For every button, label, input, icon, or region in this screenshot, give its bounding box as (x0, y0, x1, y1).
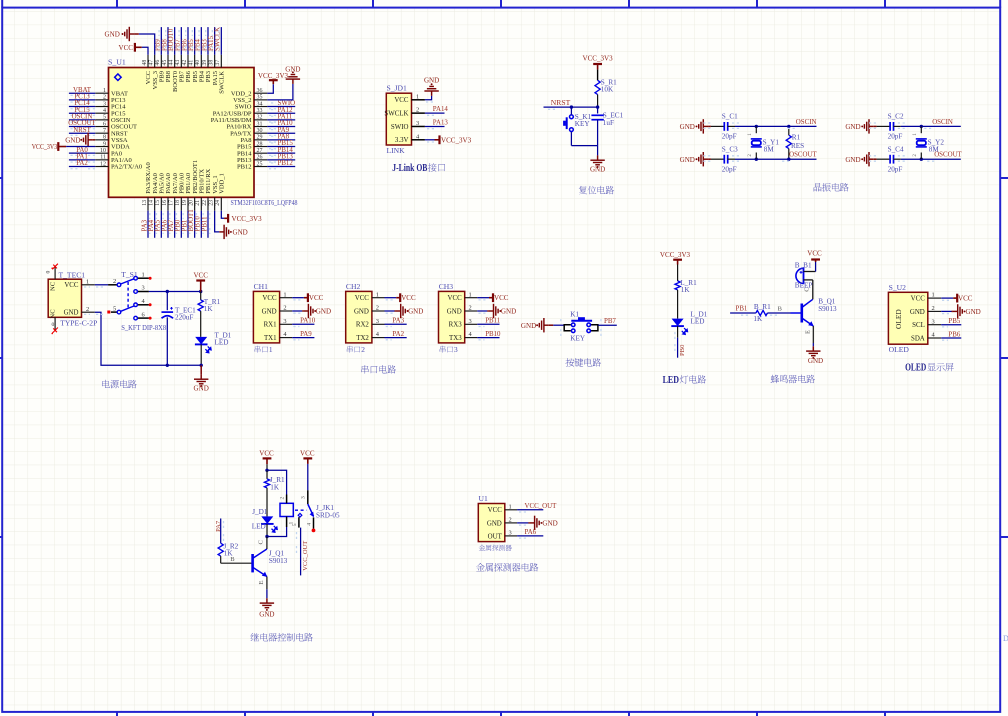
svg-text:1K: 1K (753, 315, 763, 323)
svg-text:26: 26 (257, 155, 263, 161)
svg-text:J-Link OB: J-Link OB (392, 163, 427, 174)
svg-text:3: 3 (469, 318, 472, 325)
svg-text:VCC: VCC (193, 272, 208, 280)
svg-text:5: 5 (113, 305, 116, 312)
wire and net label PA0 (U1 pin 10) (69, 147, 95, 156)
resistor S_R1 10K (595, 78, 617, 94)
wire and net label PA2 (U1 pin 12) (69, 160, 95, 169)
svg-text:U1: U1 (479, 494, 488, 503)
svg-text:GND: GND (259, 611, 274, 619)
power VCC (buzzer) (807, 249, 822, 271)
svg-text:S9013: S9013 (818, 305, 837, 313)
switch T_S1 S_KFT DIP-8X8 (107, 270, 166, 332)
power GND (power circuit) (194, 365, 209, 392)
IC S_U1 STM32F103C8T6_LQFP48 body (95, 55, 297, 211)
svg-text:22: 22 (202, 200, 208, 206)
svg-text:SWCLK: SWCLK (384, 111, 408, 118)
wire and net label PA9 (CH1 pin4) (292, 331, 314, 340)
svg-text:44: 44 (168, 60, 174, 66)
title LED circuit (663, 375, 707, 386)
svg-text:35: 35 (257, 95, 263, 101)
svg-text:GND: GND (424, 77, 439, 85)
svg-text:PB6: PB6 (948, 331, 960, 338)
svg-text:2: 2 (113, 278, 116, 285)
wire and net label PB8 (U1 top pin 45) (161, 27, 168, 55)
svg-text:33: 33 (257, 108, 263, 114)
power VCC_3V3 at JD1 pin4 (425, 135, 472, 144)
svg-text:B: B (230, 556, 235, 563)
svg-text:C: C (257, 540, 264, 545)
svg-text:4: 4 (103, 108, 106, 114)
svg-text:VCC_3V3: VCC_3V3 (660, 251, 691, 259)
svg-text:14: 14 (148, 200, 154, 206)
wire and net label PA6 (U1 OUT) (517, 529, 543, 538)
wire R1 to NRST node (596, 95, 599, 109)
svg-text:2: 2 (361, 345, 365, 354)
wire and net label PA1 (U1 pin 11) (69, 153, 95, 162)
svg-text:41: 41 (188, 60, 194, 66)
svg-text:3: 3 (103, 101, 106, 107)
capacitor S_EC1 1uF (reset) (591, 107, 623, 146)
wire and net label PC13 (U1 pin 2) (69, 93, 95, 102)
LED J_D1 (252, 508, 278, 532)
wire and net label PB1 (U1 bottom pin 19) (181, 211, 189, 238)
wire and net label PB0 (LED) (675, 326, 686, 358)
svg-text:KEY: KEY (570, 335, 586, 343)
wire and net label SWCLK (U1 top pin 37) (215, 27, 222, 55)
svg-text:3: 3 (142, 285, 145, 292)
svg-text:LED: LED (252, 523, 266, 531)
svg-text:4: 4 (306, 523, 312, 526)
wire and net label PB10 (U1 bottom pin 21) (195, 211, 203, 238)
title power circuit (102, 380, 137, 388)
buzzer B_B1 BEEP (795, 261, 816, 299)
power VCC_3V3 (reset) (583, 55, 614, 70)
svg-text:J_D1: J_D1 (252, 508, 268, 516)
svg-text:VCC_OUT: VCC_OUT (302, 541, 309, 571)
wire and net label OSCIN (U1 pin 5) (69, 113, 95, 122)
transistor J_Q1 S9013 (253, 537, 288, 590)
svg-text:28: 28 (257, 141, 263, 147)
svg-text:S_U2: S_U2 (889, 283, 907, 292)
svg-text:GND: GND (910, 309, 925, 316)
svg-text:GND: GND (194, 384, 209, 392)
label serial port 1 (255, 345, 273, 354)
power VCC (power circuit) (193, 272, 208, 292)
svg-text:VCC_3V3: VCC_3V3 (32, 143, 58, 151)
wire and net label PA3 (CH2 pin3) (385, 318, 407, 327)
svg-text:6: 6 (142, 311, 145, 318)
svg-text:31: 31 (257, 121, 263, 127)
wire and net label PB10 (CH3 pin4) (477, 331, 501, 340)
wire and net label PB6 (U1 top pin 42) (181, 27, 188, 55)
wire VCC to relay common pin3 (300, 464, 308, 504)
svg-text:VCC_OUT: VCC_OUT (525, 503, 558, 510)
title metal detector circuit (476, 563, 538, 572)
svg-text:VCC: VCC (958, 295, 973, 303)
svg-text:1: 1 (469, 291, 472, 298)
svg-text:PA2/TX/A0: PA2/TX/A0 (111, 164, 142, 171)
svg-text:20pF: 20pF (722, 133, 737, 141)
svg-text:3: 3 (509, 530, 512, 537)
power GND at U2 pin2 (941, 304, 981, 318)
svg-text:30: 30 (257, 128, 263, 134)
svg-text:RX1: RX1 (264, 322, 278, 329)
svg-text:19: 19 (182, 200, 188, 206)
svg-text:T_TEC1: T_TEC1 (59, 270, 86, 279)
svg-text:34: 34 (257, 101, 263, 107)
wire and net label PB11 (CH3 pin3) (477, 318, 501, 327)
wire and net label PA10 (CH1 pin3) (292, 318, 316, 327)
title serial port circuit (361, 365, 396, 373)
label serial port 3 (440, 345, 458, 354)
svg-text:2: 2 (509, 517, 512, 524)
svg-text:LED: LED (663, 375, 680, 386)
LED T_D1 (195, 331, 232, 365)
svg-text:46: 46 (155, 60, 161, 66)
svg-text:32: 32 (257, 115, 263, 121)
svg-text:5: 5 (103, 115, 106, 121)
wire and net label PB14 (U1 right pin 27) (267, 147, 295, 156)
power VCC (relay right) (300, 450, 315, 464)
power VCC at U1 pin48 (top) (119, 43, 149, 55)
wire and net label PB7 (key) (598, 318, 617, 337)
wire and net label PB6 (U2 SDA) (941, 331, 961, 340)
wire bottom node (reset) (571, 145, 597, 147)
relay J_JK1 SRD-05 coil (279, 495, 294, 528)
svg-text:PA3: PA3 (392, 318, 404, 325)
wire and net label PA11 (U1 right pin 32) (267, 113, 295, 122)
svg-text:VCC: VCC (448, 295, 463, 302)
svg-text:B_B1: B_B1 (795, 261, 812, 269)
svg-text:VCC_3V3: VCC_3V3 (232, 215, 263, 223)
svg-text:RX3: RX3 (449, 322, 463, 329)
svg-text:3: 3 (932, 318, 935, 325)
title crystal circuit (814, 183, 849, 192)
svg-text:20pF: 20pF (888, 133, 903, 141)
svg-text:3: 3 (416, 120, 419, 127)
svg-text:OLED: OLED (905, 363, 926, 374)
svg-text:8: 8 (103, 135, 106, 141)
svg-text:1: 1 (142, 271, 145, 278)
svg-text:S_JD1: S_JD1 (387, 84, 407, 93)
svg-text:45: 45 (162, 60, 168, 66)
svg-text:VCC: VCC (119, 44, 134, 52)
label metal detector (479, 545, 512, 551)
power VCC_3V3 at U1 pin24 VDD_1 (bottom) (221, 211, 262, 223)
svg-text:PA7: PA7 (215, 520, 222, 532)
svg-text:KEY: KEY (575, 120, 591, 128)
connector U1 metal detector body (478, 494, 517, 542)
svg-text:GND: GND (808, 357, 823, 365)
wire and net label PA9 (U1 right pin 30) (267, 127, 295, 136)
svg-text:1K: 1K (270, 484, 280, 492)
svg-text:PA10: PA10 (300, 318, 316, 325)
wire and net label PB12 (U1 right pin 25) (267, 160, 295, 169)
svg-text:0: 0 (46, 271, 52, 274)
resistor B_R1 1K (753, 303, 790, 323)
svg-text:GND: GND (680, 123, 695, 131)
wire and net label PA2 (CH2 pin4) (385, 331, 407, 340)
svg-text:TYPE-C-2P: TYPE-C-2P (60, 318, 97, 327)
title relay control circuit (251, 633, 313, 642)
svg-text:1: 1 (283, 291, 286, 298)
power GND at U1 pin2 (517, 516, 558, 530)
svg-text:NRST: NRST (73, 127, 91, 134)
wire and net label SWIO (U1 right pin 34) (267, 100, 295, 109)
wire LED to bottom node (relay) (265, 524, 268, 538)
svg-text:R1: R1 (792, 134, 801, 142)
resistor L_R1 1K (675, 265, 697, 319)
power GND (buzzer) (806, 343, 823, 365)
power GND (relay) (259, 589, 274, 618)
wire VCC_3V3 to R1 (597, 70, 599, 81)
power GND at U1 pin35 VSS_2 (267, 66, 300, 100)
svg-text:GND: GND (501, 308, 516, 316)
svg-text:GND: GND (447, 308, 462, 315)
wire and net label BOOT0 (U1 top pin 44) (168, 27, 175, 55)
svg-text:20pF: 20pF (722, 165, 737, 173)
no-ERC marker top NC pin (52, 264, 58, 270)
svg-text:E: E (805, 330, 812, 334)
svg-text:PA2: PA2 (392, 331, 404, 338)
svg-text:PA2: PA2 (76, 160, 88, 167)
title J-Link OB interface (392, 163, 445, 174)
wire and net label PB13 (U1 right pin 26) (267, 153, 295, 162)
svg-text:OUT: OUT (488, 533, 503, 540)
svg-text:47: 47 (148, 60, 154, 66)
svg-text:37: 37 (215, 60, 221, 66)
svg-text:GND: GND (354, 308, 369, 315)
svg-text:GND: GND (487, 520, 502, 527)
pushbutton K1 KEY (564, 310, 598, 342)
resistor J_R1 1K (264, 470, 285, 516)
wire and net label OSCOUT (U1 pin 6) (68, 120, 96, 129)
svg-text:CH2: CH2 (346, 282, 361, 291)
connector T_TEC1 TYPE-C-2P body (46, 266, 98, 331)
title buzzer circuit (771, 375, 815, 384)
svg-text:23: 23 (208, 200, 214, 206)
wire and net label PB5 (U1 top pin 41) (188, 27, 195, 55)
svg-text:VCC: VCC (300, 450, 315, 458)
svg-text:NC: NC (49, 281, 56, 291)
wire and net label PA8 (U1 right pin 29) (267, 133, 295, 142)
power GND at CH3 pin2 (477, 304, 516, 318)
svg-text:B_R1: B_R1 (754, 303, 771, 311)
wire and net label PB3 (U1 top pin 39) (201, 27, 208, 55)
svg-text:2: 2 (283, 305, 286, 312)
power GND at U1 pin23 VSS_1 (bottom) (215, 211, 248, 239)
svg-text:PB11: PB11 (485, 318, 501, 325)
svg-text:PB12: PB12 (278, 160, 294, 167)
svg-text:38: 38 (208, 60, 214, 66)
power GND at CH1 pin2 (292, 304, 331, 318)
wire TEC1 VCC to switch pin2 (84, 285, 108, 287)
power VCC (relay left) (259, 450, 274, 465)
svg-text:220uF: 220uF (175, 314, 193, 322)
svg-text:GND: GND (521, 322, 536, 330)
svg-text:CH1: CH1 (254, 282, 269, 291)
connector S_U2 OLED body (888, 283, 941, 354)
svg-text:B: B (778, 306, 783, 313)
svg-text:OSCIN: OSCIN (796, 119, 817, 126)
svg-text:PB1: PB1 (736, 306, 748, 313)
svg-text:36: 36 (257, 88, 263, 94)
svg-text:SWCLK: SWCLK (215, 27, 222, 51)
power GND at JD1 pin1 (424, 77, 439, 102)
connector S_JD1 LINK (J-Link OB) body (384, 84, 425, 155)
wire and net label PA14 (JD1 pin2) (425, 106, 449, 115)
svg-text:RX2: RX2 (356, 322, 370, 329)
relay J_JK1 switch contacts (295, 504, 340, 520)
svg-text:40: 40 (195, 60, 201, 66)
power VCC_3V3 at U1 pin9 VDDA (32, 142, 95, 151)
svg-text:LED: LED (215, 339, 229, 347)
svg-text:24: 24 (215, 200, 221, 206)
svg-text:VCC: VCC (494, 294, 509, 302)
wire and net label PA15 (U1 top pin 38) (208, 27, 215, 55)
wire and net label PC14 (U1 pin 3) (69, 100, 95, 109)
svg-text:OSCOUT: OSCOUT (934, 152, 962, 159)
svg-text:1K: 1K (204, 305, 214, 313)
svg-text:13: 13 (142, 200, 148, 206)
svg-text:0: 0 (52, 322, 55, 328)
power GND at CH2 pin2 (385, 304, 424, 318)
wire VCC to node (relay) (265, 464, 268, 472)
svg-text:PA9: PA9 (300, 331, 312, 338)
svg-text:2: 2 (932, 305, 935, 312)
svg-text:PA13: PA13 (433, 120, 449, 127)
svg-text:VCC_3V3: VCC_3V3 (583, 55, 614, 63)
svg-text:39: 39 (202, 60, 208, 66)
svg-text:OSCIN: OSCIN (932, 119, 953, 126)
svg-text:TX1: TX1 (264, 335, 277, 342)
svg-text:1: 1 (269, 345, 273, 354)
svg-text:10: 10 (100, 148, 106, 154)
power VCC at CH1 pin1 (292, 293, 323, 302)
svg-text:NC: NC (49, 309, 56, 319)
svg-text:18: 18 (175, 200, 181, 206)
svg-text:SWIO: SWIO (391, 124, 409, 131)
svg-text:PB0: PB0 (679, 344, 686, 356)
svg-text:GND: GND (966, 308, 981, 316)
svg-text:RES: RES (791, 142, 804, 150)
svg-text:17: 17 (168, 200, 174, 206)
svg-text:STM32F103C8T6_LQFP48: STM32F103C8T6_LQFP48 (231, 198, 298, 207)
svg-text:5: 5 (292, 523, 298, 526)
wire and net label PB1 (buzzer) (730, 306, 756, 316)
svg-text:VDD_1: VDD_1 (219, 173, 226, 194)
title reset circuit (579, 186, 614, 194)
svg-text:12: 12 (100, 161, 106, 167)
svg-text:K1: K1 (570, 310, 579, 318)
svg-text:VCC: VCC (911, 296, 926, 303)
svg-text:D: D (1003, 634, 1008, 643)
wire and net label BOOT1 (U1 bottom pin 20) (188, 209, 196, 238)
relay contact pin4 (NO) (306, 517, 315, 532)
wire and net label NRST (544, 98, 598, 109)
wire and net label PA7 (relay base drive) (215, 519, 224, 544)
power GND at U1 pin47 VSS_3 (top) (105, 27, 155, 55)
svg-text:GND: GND (542, 519, 557, 527)
svg-text:NRST: NRST (551, 98, 571, 107)
svg-text:VCC: VCC (259, 450, 274, 458)
power GND (reset) (590, 146, 605, 174)
wire node to relay coil pin2 (267, 470, 287, 494)
svg-text:15: 15 (155, 200, 161, 206)
power GND at U1 pin8 VSSA (65, 133, 95, 147)
wire and net label PA3 (U1 bottom pin 13) (141, 211, 149, 238)
svg-text:CH3: CH3 (439, 282, 454, 291)
svg-text:S_C1: S_C1 (722, 113, 738, 121)
svg-text:VCC: VCC (355, 295, 370, 302)
connector CH1 (serial port 1) body (253, 282, 292, 343)
svg-text:GND: GND (316, 308, 331, 316)
connector CH3 (serial port 3) body (439, 282, 478, 343)
svg-text:48: 48 (142, 60, 148, 66)
svg-text:PB10: PB10 (485, 331, 501, 338)
wire and net label PB7 (U1 top pin 43) (175, 27, 182, 55)
svg-text:1: 1 (416, 93, 419, 100)
svg-text:SRD-05: SRD-05 (316, 511, 340, 519)
svg-text:E: E (258, 580, 265, 584)
wire and net label PA5 (U1 bottom pin 15) (155, 211, 163, 238)
svg-text:GND: GND (262, 308, 277, 315)
svg-text:S9013: S9013 (269, 557, 288, 565)
svg-text:1: 1 (932, 292, 935, 299)
svg-text:OSCOUT: OSCOUT (789, 152, 817, 159)
svg-text:2: 2 (279, 497, 285, 500)
svg-text:SCL: SCL (912, 322, 925, 329)
wire and net label PB9 (U1 top pin 46) (155, 27, 162, 55)
power VCC at U2 pin1 (941, 294, 973, 303)
wire and net label VCC_OUT (U1 pin1) (517, 503, 557, 512)
wire and net label VBAT (U1 pin 1) (69, 87, 95, 96)
svg-text:VCC: VCC (807, 249, 822, 257)
svg-text:1K: 1K (681, 286, 691, 294)
label serial port 2 (347, 345, 365, 354)
svg-text:21: 21 (195, 200, 201, 206)
svg-text:VCC: VCC (401, 294, 416, 302)
svg-text:29: 29 (257, 135, 263, 141)
svg-text:1: 1 (509, 503, 512, 510)
svg-text:T_S1: T_S1 (121, 270, 138, 279)
connector CH2 (serial port 2) body (346, 282, 385, 343)
svg-text:S_U1: S_U1 (108, 58, 126, 67)
svg-text:20pF: 20pF (888, 165, 903, 173)
svg-text:VCC: VCC (64, 282, 79, 289)
svg-text:10K: 10K (601, 86, 614, 94)
svg-text:6: 6 (103, 121, 106, 127)
svg-text:GND: GND (233, 229, 248, 237)
svg-text:PB11: PB11 (201, 216, 208, 232)
svg-text:GND: GND (680, 156, 695, 164)
net label OSCOUT (S_Y2) (845, 119, 876, 133)
svg-text:SWCLK: SWCLK (219, 71, 226, 94)
svg-text:GND: GND (105, 31, 120, 39)
wire switch pin3 to VCC node (149, 290, 203, 293)
svg-text:BEEP: BEEP (795, 282, 813, 290)
wire bottom node to relay coil pin1 (267, 527, 287, 537)
svg-text:GND: GND (845, 123, 860, 131)
svg-text:GND: GND (285, 66, 300, 74)
resistor T_R1 1K (198, 292, 220, 337)
svg-text:2: 2 (376, 305, 379, 312)
svg-text:11: 11 (100, 155, 106, 161)
wire and net label PC15 (U1 pin 4) (69, 107, 95, 116)
svg-text:LED: LED (691, 318, 705, 326)
wire and net label PA12 (U1 right pin 33) (267, 107, 295, 116)
